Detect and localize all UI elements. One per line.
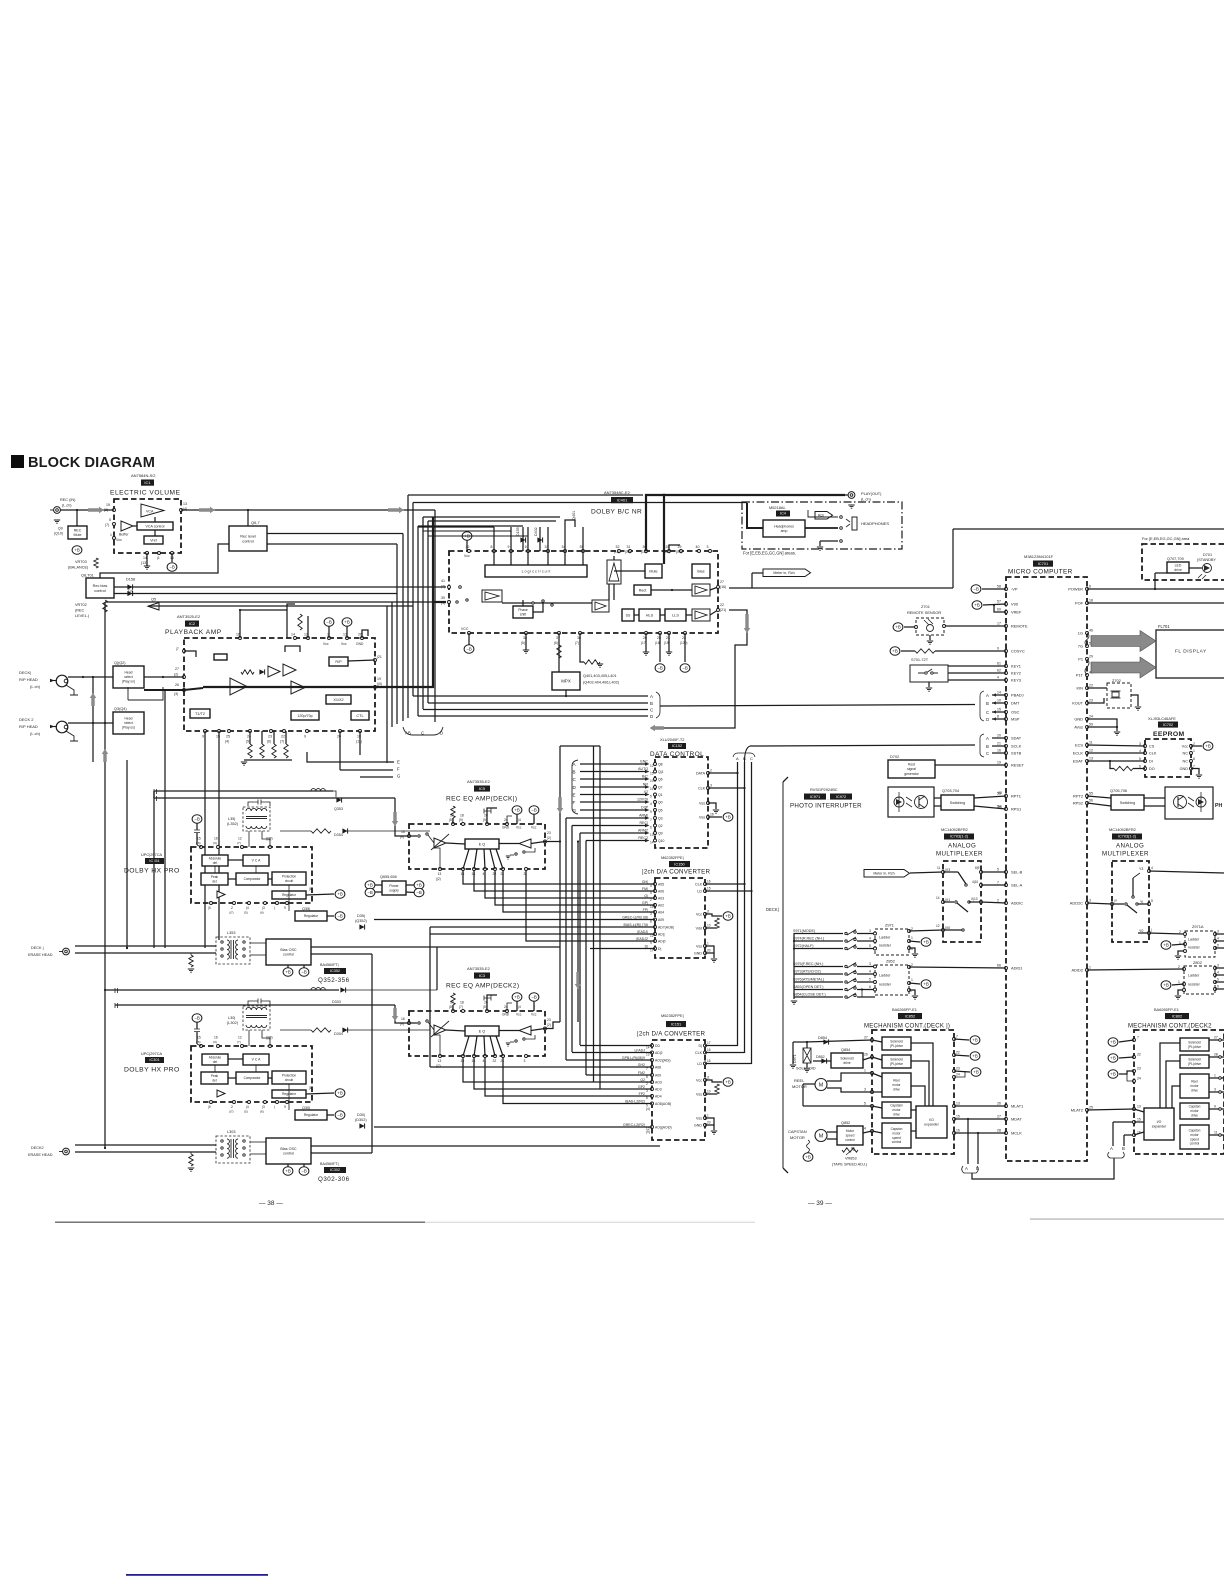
svg-text:+B: +B <box>725 1080 731 1085</box>
component remote sensor diode <box>927 625 934 632</box>
svg-text:17: 17 <box>997 622 1001 626</box>
svg-text:D402: D402 <box>534 527 538 536</box>
component crystal Z702 <box>1112 692 1119 697</box>
resistor below IC2 4 <box>284 744 288 758</box>
wire meter tag down <box>751 573 753 588</box>
rule blue footer <box>126 1574 268 1576</box>
svg-text:GND: GND <box>694 952 702 956</box>
wire muxr internal top <box>1133 873 1140 878</box>
wire photo to switching b <box>934 805 941 807</box>
wire expander top to mute <box>614 556 645 571</box>
svg-text:27: 27 <box>175 667 179 671</box>
wire eclk <box>1087 752 1145 754</box>
wire phase shift right <box>533 603 543 612</box>
wire 1eadj2 line b <box>526 869 655 941</box>
wire DECK1 bracket hook top <box>783 777 788 782</box>
switch contact dolby mid b <box>542 600 544 602</box>
amplifier stage C <box>692 584 710 596</box>
junction head1 b <box>92 676 94 678</box>
wire q2 593 feed <box>594 1081 653 1083</box>
wire rect to ampC <box>651 589 692 591</box>
bracket sdat group <box>980 734 984 757</box>
wire pin20 up 2 <box>487 995 497 1011</box>
switch contact S853(OPEN DET.) b <box>854 987 856 989</box>
wire ic150 vcc <box>705 914 722 916</box>
wire ioexp to sol1 <box>911 1043 933 1106</box>
pin 58 IC701 left -VP <box>1005 588 1008 591</box>
resistor below IC2 2 <box>260 744 264 758</box>
svg-text:(|||8): (|||8) <box>266 837 273 841</box>
svg-text:Rect: Rect <box>639 588 647 592</box>
svg-text:3: 3 <box>1217 964 1219 968</box>
box comparator 1 <box>236 873 268 885</box>
wire fb switch 2 <box>526 1035 535 1039</box>
svg-text:CLK: CLK <box>698 787 706 791</box>
wire reel pin3 <box>872 1091 882 1093</box>
wire mech2 13 to ioexp <box>1134 1109 1144 1112</box>
wire B to pin16 mech2 <box>1124 1134 1134 1136</box>
tag IC4 <box>776 511 790 517</box>
svg-text:−B: −B <box>337 914 343 919</box>
wire pin to logic 583 <box>582 551 584 565</box>
pin 21 IC5 bottom <box>502 868 505 871</box>
pin 16 IC1 bottom <box>171 552 174 555</box>
wire +B remote <box>904 626 916 628</box>
wire erase head line b 2 <box>75 1151 216 1153</box>
svg-text:S971(MODE): S971(MODE) <box>793 929 815 933</box>
svg-text:4: 4 <box>650 802 652 806</box>
wire net D line <box>418 715 648 717</box>
svg-text:15: 15 <box>707 1059 711 1063</box>
svg-text:D: D <box>440 731 443 736</box>
svg-text:Vcc: Vcc <box>1182 745 1188 749</box>
wire eq bottom 496 1 <box>496 849 503 869</box>
svg-text:IC703(1-2): IC703(1-2) <box>950 835 969 839</box>
wire mech1 pin23 <box>954 1071 970 1072</box>
arrowhead A pbadj <box>992 693 996 696</box>
svg-text:Z702: Z702 <box>1112 678 1121 683</box>
svg-text:C: C <box>986 710 989 715</box>
svg-text:+B: +B <box>892 649 898 654</box>
svg-text:IC701: IC701 <box>1038 561 1049 566</box>
diode D852 <box>821 1058 826 1063</box>
wire ic151 vcc <box>705 1080 722 1082</box>
svg-text:BA4560FT|: BA4560FT| <box>320 963 339 967</box>
pin 13 IC852 right <box>953 1105 956 1108</box>
svg-text:(Play:os): (Play:os) <box>122 726 135 730</box>
svg-text:,: , <box>828 796 829 801</box>
wire xfmr to bias b 2 <box>250 1153 266 1155</box>
svg-text:Vss: Vss <box>699 816 705 820</box>
label tag Meter in Rch <box>763 569 811 577</box>
tag IC703(1-2) right <box>1112 834 1142 840</box>
switch bar S971(MODE) <box>847 930 856 936</box>
pin 24 IC2 bottom <box>249 730 252 733</box>
ground z852 <box>912 996 918 999</box>
wire ic152 vss gnd <box>708 803 716 809</box>
svg-text:3: 3 <box>1089 899 1091 903</box>
svg-text:7: 7 <box>1137 1036 1139 1040</box>
wire pin17 stub <box>184 651 196 657</box>
svg-text:23: 23 <box>547 1018 551 1022</box>
svg-text:M: M <box>819 1083 824 1089</box>
pin 1 IC701 right ADID2 <box>1086 969 1089 972</box>
pin 6 IC702 DO <box>1144 767 1147 770</box>
svg-text:Q302-306: Q302-306 <box>318 1176 350 1183</box>
pin 13 IC2 top <box>346 637 349 640</box>
wire y0 internal <box>1138 932 1149 934</box>
pin 20 IC701 left SDAT <box>1005 737 1008 740</box>
junction MPX at A line <box>565 695 567 697</box>
svg-text:A05: A05 <box>658 883 664 887</box>
junction edat <box>1109 760 1111 762</box>
svg-text:4: 4 <box>483 1059 485 1063</box>
wire z971a gnd <box>1178 951 1185 955</box>
svg-text:generator: generator <box>904 772 919 776</box>
pin 1 z971a <box>1184 943 1187 946</box>
svg-text:(4): (4) <box>441 601 445 605</box>
box EQ 1 <box>465 839 499 849</box>
junction sw bus a <box>793 940 795 942</box>
box protection circuit 1 <box>272 872 306 885</box>
wire D pbadj arrow <box>992 718 1006 720</box>
wire signal bus 560 <box>559 746 561 1022</box>
svg-text:Vss: Vss <box>699 802 705 806</box>
wire resistor 3 to pin <box>273 731 275 744</box>
wire cap pin15 2 <box>196 1032 198 1044</box>
svg-text:|1: |1 <box>157 556 160 560</box>
pin 3 z971a right <box>1214 933 1217 936</box>
arrowhead ARM| <box>645 816 650 819</box>
svg-text:Q655,656: Q655,656 <box>380 875 397 879</box>
pin 16 IC852 right <box>953 1132 956 1135</box>
svg-text:Solenoid: Solenoid <box>840 1056 853 1060</box>
arrow through amp 1 <box>431 834 449 850</box>
svg-text:drive: drive <box>1191 1114 1198 1118</box>
wire vca down 1 <box>255 866 257 873</box>
wire meter tag feed <box>752 572 763 574</box>
pin 59 IC701 right AVss <box>1086 726 1089 729</box>
pin 28 IC802 right edge <box>1219 1056 1222 1059</box>
pin Vss IC151 right 10 <box>704 1093 707 1096</box>
svg-text:motor: motor <box>1190 1109 1199 1113</box>
svg-text:Regulator: Regulator <box>282 893 297 897</box>
wire Q5 out long <box>148 605 413 607</box>
svg-text:Ladder: Ladder <box>1188 938 1200 942</box>
svg-text:3: 3 <box>1217 930 1219 934</box>
pin 13 IC701 right EDAT <box>1086 760 1089 763</box>
svg-text:AO8(AOB): AO8(AOB) <box>655 1102 671 1106</box>
svg-text:MOTOR: MOTOR <box>790 1135 805 1140</box>
svg-text:11: 11 <box>1089 741 1093 745</box>
junction above IC2 <box>239 609 241 611</box>
svg-text:Q852: Q852 <box>841 1121 850 1125</box>
svg-text:(Q10): (Q10) <box>54 532 63 536</box>
svg-text:AO3: AO3 <box>655 1081 662 1085</box>
pin 12 IC152 ENC <box>654 763 657 766</box>
svg-text:shift: shift <box>520 613 526 617</box>
svg-text:22: 22 <box>1089 684 1093 688</box>
svg-text:19: 19 <box>461 1059 465 1063</box>
box I/O expander deck1 <box>916 1106 947 1138</box>
pin 27(16) IC401 right <box>717 586 720 589</box>
wire R/P to pin21 <box>348 660 375 661</box>
svg-text:drive: drive <box>843 1061 850 1065</box>
pin 16(9) IC3 left <box>408 1022 411 1025</box>
svg-text:ADD2C: ADD2C <box>1070 901 1083 906</box>
wire z971a out 5 <box>1215 947 1224 949</box>
wire xfmr cap loop 2 <box>248 1001 253 1005</box>
pin 16 IC5 bottom <box>473 868 476 871</box>
pin 27 IC701 left MDAT <box>1005 1118 1008 1121</box>
svg-text:|3: |3 <box>262 906 265 910</box>
wire A down deck1 <box>967 1119 969 1164</box>
svg-text:D702: D702 <box>890 754 899 759</box>
svg-text:I/O: I/O <box>929 1118 934 1122</box>
wire +B to V99 <box>983 604 1006 605</box>
junction far left a <box>104 989 106 991</box>
svg-text:4: 4 <box>1217 971 1219 975</box>
wire mech1 pin22 <box>954 1055 969 1056</box>
svg-text:66: 66 <box>997 964 1001 968</box>
op-amp U-IC852 mechanism cont deck1 <box>872 1030 954 1154</box>
switch contact in 1 a <box>418 835 420 837</box>
wire mech1 pin24 loop <box>954 1071 965 1077</box>
wire cosyc a <box>901 650 915 652</box>
bracket pbadj group <box>980 691 984 721</box>
op-amp U-IC802 mechanism cont deck2 <box>1134 1030 1224 1154</box>
wire psu +B in <box>375 884 382 886</box>
svg-text:1: 1 <box>864 1069 866 1073</box>
wire mlat2 <box>1087 1109 1134 1110</box>
svg-text:−B: −B <box>301 1169 307 1174</box>
wire mesh v 372 <box>371 954 373 1153</box>
svg-text:Vss: Vss <box>696 1093 702 1097</box>
wire IC1 output to bus <box>181 509 435 511</box>
svg-text:REMOTE: REMOTE <box>1011 624 1028 629</box>
pin 37 IC401 bottom <box>558 632 561 635</box>
svg-text:V99: V99 <box>1011 602 1018 607</box>
svg-text:1: 1 <box>911 978 913 982</box>
title square bullet <box>11 455 24 468</box>
pin 19 IC5 bottom <box>462 868 465 871</box>
svg-text:9: 9 <box>284 906 286 910</box>
op-amp U-IC4 headphones amp <box>763 520 805 537</box>
pin 6 IC152 REC| <box>654 824 657 827</box>
wire muxr y1 link <box>1138 903 1149 905</box>
transistor Q30| regulator <box>295 1110 327 1120</box>
wire ampC to pin27 <box>710 587 718 590</box>
svg-text:MC14052BFR2: MC14052BFR2 <box>1109 827 1136 832</box>
svg-text:ERASE HEAD: ERASE HEAD <box>28 1153 53 1157</box>
pin 39(4) IC401 left <box>448 601 451 604</box>
svg-text:(21): (21) <box>720 608 726 612</box>
pin 13 IC152 ARM2 <box>654 832 657 835</box>
svg-text:16: 16 <box>472 1059 476 1063</box>
wire 430 drop <box>429 927 431 1067</box>
svg-text:Y3: Y3 <box>1139 867 1143 871</box>
svg-text:REC|: REC| <box>639 821 648 825</box>
switch contact fb2 1 <box>515 853 517 855</box>
wire vca down 2 <box>255 1065 257 1072</box>
pin 15 IC152 AUTO <box>654 770 657 773</box>
svg-text:1: 1 <box>707 1114 709 1118</box>
pin 3 z852 edge <box>874 965 877 968</box>
svg-text:16: 16 <box>472 872 476 876</box>
wire 437 drop <box>436 947 438 990</box>
box headphone area dash-dot <box>742 502 902 549</box>
pin 11 IC802 right edge <box>1219 1134 1222 1137</box>
pin 3 IC401 top <box>709 550 712 553</box>
pin |0 IC301 bottom <box>210 1101 213 1104</box>
pin 7 IC152 ARM| <box>654 817 657 820</box>
svg-text:LD: LD <box>697 890 702 894</box>
tag IC971 <box>804 794 826 800</box>
svg-text:IC1: IC1 <box>144 480 151 485</box>
svg-text:Buffer: Buffer <box>119 533 129 537</box>
pin 6 z852 edge <box>874 988 877 991</box>
svg-text:(11): (11) <box>614 550 619 554</box>
svg-text:D3P: D3P <box>641 806 649 810</box>
connector deck1 erase head <box>63 948 70 955</box>
wire bus vertical 8 <box>422 517 424 709</box>
wire prot to reg2 1 <box>288 885 290 911</box>
wire pin to logic 494 <box>493 551 495 565</box>
svg-text:ECLK: ECLK <box>1073 751 1084 756</box>
svg-text:M62352FPE|: M62352FPE| <box>661 855 684 860</box>
pin 5 IC150 FM| <box>654 890 657 893</box>
ground below REC IN jack <box>54 520 60 523</box>
svg-text:(5): (5) <box>244 1110 248 1114</box>
pin 5 IC151 B|AS-L2(R2) <box>651 1102 654 1105</box>
svg-text:SOLENOID: SOLENOID <box>796 1067 816 1071</box>
svg-text:Vcc: Vcc <box>531 1013 537 1017</box>
wire SS-HLS <box>634 614 639 616</box>
svg-text:CLK: CLK <box>695 883 703 887</box>
wire pin20 down <box>339 731 341 770</box>
pin 3 IC852 left <box>871 1091 874 1094</box>
svg-text:1: 1 <box>707 942 709 946</box>
wire d354 line <box>348 830 430 832</box>
svg-text:56: 56 <box>1089 799 1093 803</box>
wire sw to amp 1 <box>428 835 434 843</box>
svg-text:10: 10 <box>707 924 711 928</box>
svg-text:I/O: I/O <box>1157 1120 1162 1124</box>
svg-text:17: 17 <box>707 1041 711 1045</box>
svg-text:S973(ATS/CrO2): S973(ATS/CrO2) <box>793 970 821 974</box>
diode D4 <box>127 591 132 596</box>
svg-text:Q703,704: Q703,704 <box>942 788 960 793</box>
wire rec level out A <box>267 533 403 535</box>
pin 66 IC701 left ADID1 <box>1005 967 1008 970</box>
svg-text:+B: +B <box>285 1169 291 1174</box>
wire pin14 to gnd <box>146 553 148 566</box>
svg-text:1: 1 <box>1214 1074 1216 1078</box>
wire pin to logic 528 <box>527 551 529 565</box>
svg-text:Q1: Q1 <box>658 793 663 797</box>
bracket A-G bus <box>572 760 578 814</box>
svg-text:(|0): (|0) <box>377 682 382 686</box>
box VCA control <box>137 522 173 530</box>
svg-text:B: B <box>743 756 746 761</box>
svg-text:Z802: Z802 <box>1193 960 1202 965</box>
wire eq2 pin0 staircase <box>463 1057 652 1082</box>
power +B ic152 <box>723 813 733 822</box>
resistor ic150 vcc-vdd <box>715 918 719 928</box>
pin 2 IC702 right Vcc <box>1190 745 1193 748</box>
switch contact S973(ATS/CrO2) b <box>854 971 856 973</box>
pin 5 z971a right <box>1214 947 1217 950</box>
svg-text:(Q402,404,406,L402): (Q402,404,406,L402) <box>583 681 620 685</box>
wire bus vertical 7 <box>417 526 419 716</box>
wire eq1 pin2 staircase <box>485 869 655 898</box>
svg-text:12: 12 <box>304 633 308 637</box>
pin 13 IC802 left <box>1133 1108 1136 1111</box>
pin 4 IC702 CLK <box>1144 752 1147 755</box>
pin 7 IC802 left <box>1133 1039 1136 1042</box>
junction s854 <box>861 988 863 990</box>
svg-text:26: 26 <box>997 1102 1001 1106</box>
wire reg2 out 2 <box>327 1114 334 1116</box>
junction rec level takeoff <box>247 509 249 511</box>
pin 4 z971 edge <box>874 940 877 943</box>
pin |3 IC301 bottom <box>264 1101 267 1104</box>
wire capspd pin <box>872 1131 882 1133</box>
svg-text:(7): (7) <box>105 523 109 527</box>
svg-text:drive: drive <box>893 1113 900 1117</box>
pin 22(21) IC401 right <box>717 609 720 612</box>
tag IC5 <box>474 786 490 792</box>
junction 578 eq1 <box>577 840 579 842</box>
svg-text:resister: resister <box>879 944 892 948</box>
pin 27 IC802 right edge <box>1219 1039 1222 1042</box>
svg-text:11: 11 <box>1214 1131 1218 1135</box>
wire expander down <box>613 584 615 600</box>
wire mech2 right 28 <box>1209 1056 1224 1058</box>
tag IC702 <box>1158 722 1178 728</box>
wire pin24 gnd <box>668 633 670 652</box>
amplifier stage B <box>592 600 609 612</box>
pin 34 IC401 top <box>564 550 567 553</box>
wire net C to ic152 <box>580 778 645 780</box>
svg-text:|7: |7 <box>176 647 179 651</box>
wire dolby 22 branch down <box>659 640 747 728</box>
pin 11 IC1 bottom <box>158 552 161 555</box>
diode D354 <box>342 828 347 833</box>
wire eq bottom 477 2 <box>474 1036 477 1056</box>
power -B hx 2 <box>192 1014 202 1023</box>
svg-text:Vcc: Vcc <box>323 642 329 646</box>
svg-text:Q3: Q3 <box>658 817 663 821</box>
wire bias osc2 out a <box>311 1145 660 1147</box>
pin 14 X1 mux <box>942 901 945 904</box>
svg-text:POF: POF <box>1075 601 1084 606</box>
svg-text:ELECTRIC VOLUME: ELECTRIC VOLUME <box>110 490 181 497</box>
junction record signal at first stage <box>212 686 214 688</box>
switch contact dolby in a <box>456 601 458 603</box>
svg-text:DOLBY HX PRO: DOLBY HX PRO <box>124 868 180 875</box>
wire pin36 corner <box>580 660 584 662</box>
wire z852 gnd <box>909 990 915 995</box>
svg-text:supply: supply <box>389 888 399 892</box>
motor capstan deck1 <box>815 1130 827 1142</box>
svg-text:(16): (16) <box>720 585 726 589</box>
wire bus vertical 4 <box>402 534 404 722</box>
wire REC2 feed <box>586 840 645 842</box>
svg-text:EEPROM: EEPROM <box>1153 731 1185 738</box>
box peak det 2 <box>201 1072 228 1084</box>
svg-text:resister: resister <box>1188 983 1201 987</box>
